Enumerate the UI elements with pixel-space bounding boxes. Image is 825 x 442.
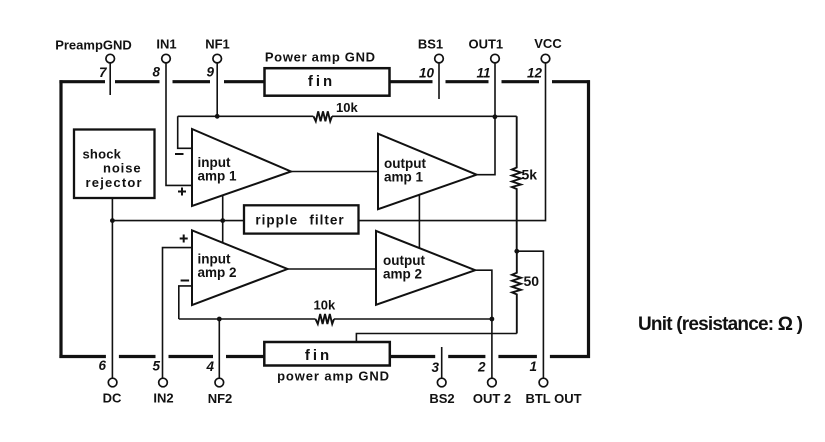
svg-text:ripple filter: ripple filter [255,213,344,228]
node 5k/50/BTL junction dot [514,249,519,254]
pin 10 circle (BS1) [435,54,444,63]
resistor R 5k vertical with leads [512,116,521,251]
svg-text:NF2: NF2 [208,391,233,406]
wire IN1 to amp1 plus input [166,63,192,185]
op-amp output amp 1 triangle [378,134,477,210]
wire amp2 output to output amp2 [288,268,377,270]
svg-text:fin: fin [305,347,332,364]
svg-text:amp 1: amp 1 [198,169,238,184]
svg-text:power amp GND: power amp GND [277,369,390,384]
amp1 plus sign [178,188,186,196]
svg-text:OUT1: OUT1 [468,37,503,52]
pin 12 circle (VCC) [541,54,550,63]
wire OUT1 pin11 down to amp1 output [477,63,495,175]
node OUT2 junction dot [490,317,495,322]
svg-text:8: 8 [152,65,160,80]
svg-text:3: 3 [431,360,439,375]
wire bias vertical between output amps [418,195,420,248]
pin 9 circle (NF1) [213,54,222,63]
node OUT1 junction dot [493,114,498,119]
svg-text:BS1: BS1 [418,37,443,52]
svg-text:rejector: rejector [86,175,143,190]
svg-text:PreampGND: PreampGND [55,38,132,53]
wire IN2 to amp2 plus input [163,248,193,379]
wire 10k top feedback line right part [332,115,517,117]
wire pin3 BS2 stub [441,347,443,378]
svg-text:IN2: IN2 [153,391,173,406]
wire NF1 down to 10k node [216,63,218,116]
fin box bottom (power amp GND) [264,342,390,366]
svg-text:Unit (resistance: Ω ): Unit (resistance: Ω ) [638,314,803,335]
ripple filter box [244,205,359,233]
pin 7 circle (PreampGND) [106,54,115,63]
svg-text:IN1: IN1 [156,37,176,52]
wire amp1 minus input step [178,116,192,148]
svg-text:50: 50 [524,273,540,289]
node shock/bus junction dot [110,218,115,223]
pin 6 circle (DC) [108,378,117,387]
resistor R 50 vertical with leads [512,251,521,333]
svg-text:2: 2 [477,360,486,375]
wire pin7 stub [109,63,111,95]
wire pin10 BS1 stub [438,63,440,99]
wire NF2 up to 10k bottom node [218,319,220,378]
svg-text:amp 2: amp 2 [198,265,237,280]
svg-text:7: 7 [99,65,108,80]
wire BTL OUT pin1 up to 5k/50 node [517,251,544,378]
pin 5 circle (IN2) [159,378,168,387]
svg-text:amp 2: amp 2 [383,267,422,282]
svg-text:10k: 10k [336,100,358,115]
wire 10k bottom feedback line left part [179,318,316,320]
wire 10k bottom feedback line right part [334,318,492,320]
amp2 plus sign [180,235,188,243]
IC package outline bottom border [59,355,590,358]
pin 11 circle (OUT1) [491,54,500,63]
pin 3 circle (BS2) [437,378,446,387]
pin 8 circle (IN1) [162,54,171,63]
wire DC pin6 up through bus to shock box [111,198,113,378]
IC package outline top border [59,80,590,83]
svg-text:Power amp GND: Power amp GND [265,50,376,65]
svg-text:10k: 10k [314,298,336,313]
op-amp input amp 1 triangle [192,129,291,206]
svg-text:10: 10 [419,66,435,81]
svg-text:BTL OUT: BTL OUT [525,391,581,406]
svg-text:5k: 5k [522,167,538,183]
wire bias vertical between input amps [222,195,224,243]
IC package outline right border [587,80,590,358]
fin box top (power amp GND) [265,68,390,96]
pin 2 circle (OUT 2) [488,378,497,387]
svg-text:OUT 2: OUT 2 [473,391,511,406]
node NF1 junction dot [215,114,220,119]
svg-text:NF1: NF1 [205,37,230,52]
wire amp2 minus input step [179,286,192,319]
resistor R 10k top zigzag [314,111,333,121]
op-amp input amp 2 triangle [192,230,288,305]
wire 10k top feedback line left part [178,115,314,117]
wire VCC pin12 down to ripple bus [359,63,546,221]
IC package outline left border [59,80,62,358]
node NF2 junction dot [217,317,222,322]
svg-text:6: 6 [98,358,106,373]
svg-text:12: 12 [527,66,543,81]
svg-text:amp 1: amp 1 [384,170,424,185]
shock noise rejector box [74,130,155,199]
wire 50 bottom to power amp GND fin [356,334,516,343]
amp2 minus sign [181,280,190,282]
svg-text:11: 11 [476,66,490,81]
pin 4 circle (NF2) [215,378,224,387]
svg-text:1: 1 [529,359,537,374]
svg-text:noise: noise [103,161,141,176]
svg-text:shock: shock [83,147,122,162]
svg-text:4: 4 [205,359,214,374]
svg-text:5: 5 [152,359,160,374]
svg-text:DC: DC [103,391,122,406]
wire ripple bus left section [112,220,244,222]
svg-text:9: 9 [206,65,214,80]
svg-text:fin: fin [308,73,335,90]
svg-text:VCC: VCC [534,36,562,51]
node bias/bus junction dot [220,218,225,223]
resistor R 10k bottom zigzag [316,314,335,324]
wire OUT2 pin2 up to amp2 output [475,270,492,378]
amp1 minus sign [175,153,184,155]
op-amp output amp 2 triangle [376,231,475,305]
svg-text:BS2: BS2 [429,391,454,406]
pin 1 circle (BTL OUT) [539,378,548,387]
wire amp1 output to output amp1 [291,171,378,173]
